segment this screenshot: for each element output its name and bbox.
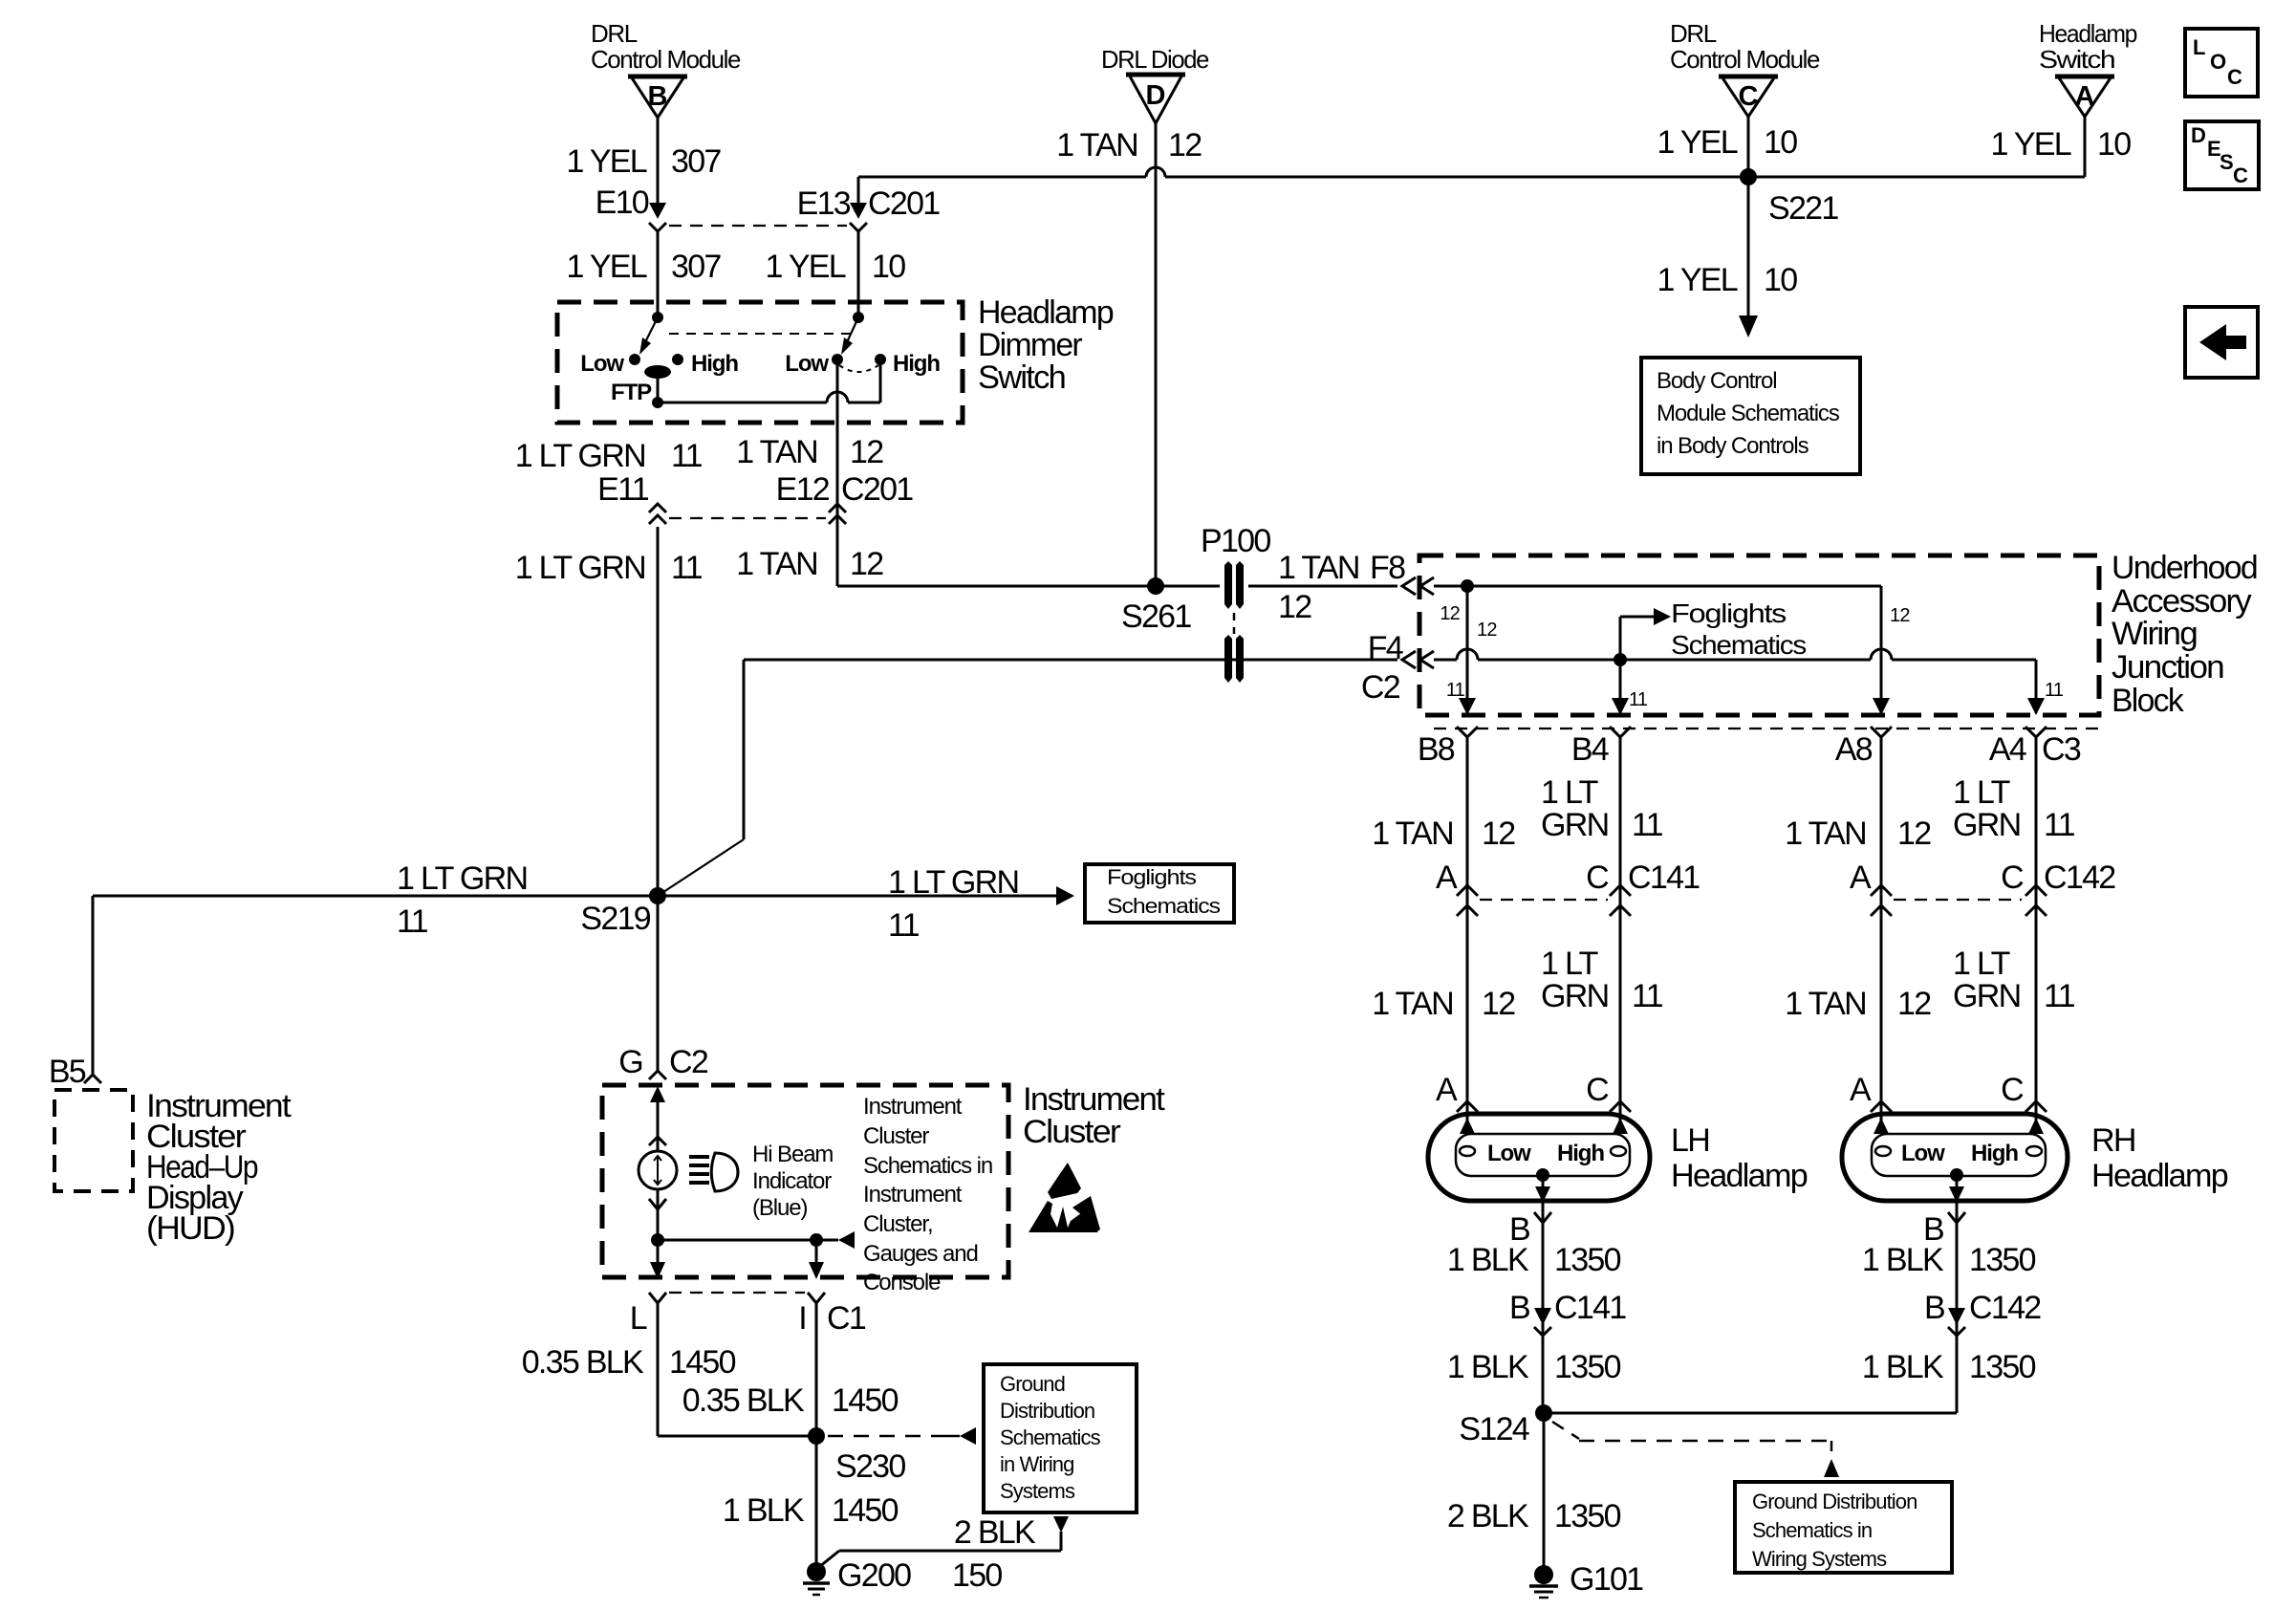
Hi Beam Indicator (Blue) text	[752, 1142, 833, 1221]
svg-text:C142: C142	[1969, 1290, 2041, 1326]
GRN wire inside junction block with hops	[1434, 649, 2036, 660]
C141 chevrons A column	[1457, 885, 1478, 916]
cluster entry arrow up	[650, 1086, 665, 1151]
svg-text:B: B	[1509, 1290, 1529, 1326]
svg-text:12: 12	[850, 546, 883, 582]
label 0.35 BLK 1450 right	[682, 1382, 899, 1419]
Instrument Cluster dashed box	[602, 1085, 1008, 1277]
svg-text:1350: 1350	[1554, 1242, 1621, 1278]
wire B into dimmer switch	[657, 229, 660, 319]
LH common dot	[1536, 1168, 1549, 1182]
label 1 LT GRN 11 left of S219	[397, 860, 527, 940]
svg-text:11: 11	[671, 550, 703, 586]
wire from C to S221	[1747, 117, 1750, 177]
LH Headlamp title	[1671, 1122, 1808, 1194]
ESD warning symbol	[1029, 1163, 1100, 1232]
label 1 BLK 1350 RH upper	[1862, 1242, 2036, 1278]
wire from A to bus	[2084, 117, 2087, 177]
svg-text:Low: Low	[1487, 1141, 1531, 1166]
cluster internal wire	[658, 1239, 838, 1242]
svg-text:G: G	[618, 1044, 642, 1080]
RH B chevron below lamp	[1948, 1212, 1965, 1223]
junction dot B8	[1461, 579, 1474, 593]
svg-text:Instrument: Instrument	[863, 1094, 963, 1120]
svg-text:1450: 1450	[832, 1382, 899, 1419]
Headlamp Switch title	[2039, 19, 2137, 74]
svg-text:D: D	[2191, 123, 2205, 147]
headlamp terminal chevrons RH	[1871, 1101, 2047, 1112]
arrow into left ground dist box	[960, 1427, 976, 1445]
back arrow box	[2185, 307, 2258, 378]
S124 dashed reference line	[1552, 1422, 1831, 1451]
label 1 TAN 12 below dimmer	[736, 434, 883, 470]
C141 chevrons C column	[1610, 885, 1631, 916]
diagonal wire S219 to GRN feed	[658, 839, 744, 896]
svg-text:1 TAN: 1 TAN	[1372, 986, 1453, 1022]
hi beam icon bars	[689, 1157, 709, 1183]
dashed connector line E11-E12	[669, 517, 826, 519]
svg-text:1 BLK: 1 BLK	[723, 1492, 805, 1529]
LOC box	[2185, 29, 2258, 97]
svg-text:Low: Low	[580, 351, 624, 377]
svg-text:1 TAN: 1 TAN	[1785, 986, 1866, 1022]
connector F8 chevrons	[1402, 577, 1434, 595]
label 1 TAN 12 below E12	[736, 546, 883, 582]
svg-text:Schematics in: Schematics in	[863, 1153, 992, 1179]
svg-text:1 LT GRN: 1 LT GRN	[397, 860, 527, 897]
Underhood junction block title	[2112, 550, 2257, 719]
svg-text:S124: S124	[1459, 1411, 1528, 1447]
RH ground wire	[1544, 1201, 1957, 1413]
label 1 BLK 1350 RH lower	[1862, 1349, 2036, 1385]
svg-text:C2: C2	[1361, 669, 1400, 706]
connector G C2 labels	[618, 1044, 708, 1080]
svg-text:GRN: GRN	[1541, 807, 1608, 843]
svg-text:Control Module: Control Module	[591, 45, 741, 74]
LH low filament hook	[1460, 1146, 1475, 1156]
wire right Low down and to S261	[837, 359, 1397, 586]
svg-text:2 BLK: 2 BLK	[954, 1514, 1036, 1551]
label 1 TAN 12 RH lower	[1785, 986, 1931, 1022]
RH high filament hook	[2026, 1146, 2042, 1156]
right switch arm	[841, 317, 858, 355]
svg-text:1 BLK: 1 BLK	[1447, 1242, 1529, 1278]
left arrow from schematics	[838, 1231, 855, 1249]
svg-text:Headlamp: Headlamp	[2091, 1158, 2228, 1194]
svg-text:DRL: DRL	[591, 19, 638, 48]
FTP wiper blob	[644, 365, 671, 379]
wire B from triangle to E10	[657, 118, 660, 205]
Foglights Schematics box (lower)	[1085, 864, 1234, 923]
svg-text:C201: C201	[868, 185, 940, 222]
label 1 TAN 12 LH lower	[1372, 986, 1515, 1022]
svg-text:Console: Console	[863, 1270, 941, 1295]
label 1 YEL 307 (upper)	[566, 143, 721, 180]
svg-text:Foglights: Foglights	[1671, 598, 1786, 628]
G101 ground symbol	[1529, 1565, 1558, 1598]
label 2 BLK 1350	[1447, 1498, 1621, 1534]
right switch pivot	[853, 312, 864, 323]
svg-text:1350: 1350	[1969, 1242, 2036, 1278]
G200 ground symbol	[803, 1562, 830, 1595]
mechanical link dashed line	[669, 333, 851, 335]
connector E11 chevrons	[649, 504, 666, 524]
arrow into BCM box	[1739, 315, 1758, 337]
svg-text:A4: A4	[1989, 731, 2026, 768]
svg-text:High: High	[1557, 1141, 1604, 1166]
Headlamp Dimmer Switch title	[978, 294, 1114, 396]
wire I down to G200	[815, 1303, 818, 1566]
svg-text:1350: 1350	[1554, 1349, 1621, 1385]
label 1 LT GRN 11 below dimmer	[515, 438, 703, 474]
S219 left horizontal wire 1 LT GRN	[93, 895, 1056, 898]
A4 drop wire	[2035, 660, 2038, 713]
svg-text:DRL: DRL	[1670, 19, 1717, 48]
svg-text:Instrument: Instrument	[1023, 1081, 1165, 1118]
svg-text:S230: S230	[835, 1448, 905, 1485]
label 1 TAN 12 RH upper	[1785, 816, 1931, 852]
headlamp terminal labels RH	[1850, 1072, 2024, 1108]
svg-text:1 LT: 1 LT	[1953, 774, 2010, 811]
svg-text:GRN: GRN	[1953, 978, 2020, 1014]
svg-text:11: 11	[1632, 978, 1663, 1014]
svg-text:Junction: Junction	[2112, 649, 2223, 685]
svg-text:1 YEL: 1 YEL	[566, 143, 646, 180]
svg-text:P100: P100	[1201, 523, 1270, 559]
svg-text:GRN: GRN	[1541, 978, 1608, 1014]
2 BLK ground wire	[819, 1532, 1061, 1567]
svg-text:150: 150	[952, 1557, 1002, 1594]
wire FTP to junction	[657, 372, 660, 402]
svg-text:12: 12	[1482, 986, 1515, 1022]
svg-text:RH: RH	[2091, 1122, 2135, 1159]
svg-text:Headlamp: Headlamp	[1671, 1158, 1808, 1194]
C142 chevrons A column	[1871, 885, 1892, 916]
svg-text:E13: E13	[797, 185, 851, 222]
svg-text:12: 12	[1168, 127, 1202, 163]
connector C142 B labels	[1924, 1290, 2041, 1326]
svg-text:L: L	[630, 1300, 647, 1337]
svg-text:11: 11	[1446, 680, 1465, 701]
svg-text:E: E	[2207, 137, 2220, 161]
connector B5 chevron	[84, 1075, 101, 1083]
label 1 LT GRN 11 RH lower	[1953, 946, 2075, 1014]
C141 dashed line	[1480, 899, 1608, 901]
svg-text:Block: Block	[2112, 683, 2185, 719]
svg-text:C: C	[1586, 859, 1609, 896]
connector C1 dashed line	[669, 1292, 805, 1294]
arrow down from left ground dist box	[1053, 1516, 1069, 1533]
label 1 YEL 10 below S221	[1657, 262, 1797, 298]
splice S124 dot	[1535, 1404, 1552, 1422]
right High contact	[875, 351, 940, 377]
svg-text:A: A	[1436, 1072, 1458, 1108]
svg-text:G200: G200	[837, 1557, 911, 1594]
junction dot in dimmer	[652, 397, 663, 408]
svg-text:10: 10	[872, 249, 905, 285]
wire from diode D down to S261	[1155, 123, 1158, 586]
svg-text:307: 307	[671, 249, 721, 285]
label 1 YEL 10 below E13	[765, 249, 905, 285]
arrow into foglights box	[1056, 886, 1074, 905]
arrow up to ground dist box	[1824, 1459, 1839, 1477]
left switch pivot	[652, 312, 663, 323]
RH headlamp outer body	[1842, 1114, 2068, 1201]
svg-text:1 BLK: 1 BLK	[1862, 1242, 1944, 1278]
svg-text:1450: 1450	[669, 1344, 736, 1381]
C141 B arrow and chevron	[1534, 1308, 1551, 1336]
svg-text:11: 11	[888, 907, 920, 944]
svg-text:B: B	[648, 81, 668, 112]
label 1 TAN F8	[1278, 550, 1405, 586]
connector G chevron	[649, 1071, 666, 1079]
svg-text:11: 11	[2044, 978, 2075, 1014]
splice S219 dot	[649, 887, 666, 904]
wire hop over DRL diode wire	[1146, 167, 1165, 177]
dashed throw arc right switch	[839, 365, 878, 372]
S230 dashed reference	[828, 1435, 960, 1438]
label 1 BLK 1450	[723, 1492, 899, 1529]
svg-text:B: B	[1924, 1290, 1944, 1326]
svg-text:11: 11	[2045, 680, 2064, 701]
svg-text:Indicator: Indicator	[752, 1168, 832, 1194]
TAN wire inside junction block	[1434, 585, 1881, 588]
svg-text:FTP: FTP	[611, 380, 652, 405]
svg-text:B5: B5	[49, 1054, 86, 1090]
svg-text:Cluster,: Cluster,	[863, 1211, 933, 1237]
svg-text:Cluster: Cluster	[863, 1123, 929, 1149]
svg-text:12: 12	[1482, 816, 1515, 852]
svg-text:10: 10	[2097, 126, 2131, 163]
svg-text:1 YEL: 1 YEL	[1990, 126, 2070, 163]
svg-text:1 YEL: 1 YEL	[765, 249, 845, 285]
svg-text:10: 10	[1764, 124, 1797, 161]
svg-text:1 BLK: 1 BLK	[1447, 1349, 1529, 1385]
svg-text:LH: LH	[1671, 1122, 1709, 1159]
connector triangle B	[628, 76, 687, 118]
B8 drop wire	[1466, 586, 1469, 713]
svg-text:Control Module: Control Module	[1670, 45, 1820, 74]
top horizontal bus wire 1 YEL 10	[858, 176, 2085, 179]
svg-text:A: A	[2075, 81, 2095, 112]
Instrument Cluster title	[1023, 1081, 1165, 1150]
LH B chevron below lamp	[1534, 1212, 1551, 1223]
splice S221 dot	[1740, 168, 1757, 185]
svg-text:1 YEL: 1 YEL	[1657, 262, 1737, 298]
label 1 BLK 1350 LH upper	[1447, 1242, 1621, 1278]
svg-text:Headlamp: Headlamp	[978, 294, 1114, 331]
svg-text:C141: C141	[1628, 859, 1700, 896]
svg-text:A: A	[1850, 1072, 1872, 1108]
Foglights Schematics text in block	[1671, 598, 1806, 660]
Ground Distribution box right	[1735, 1482, 1952, 1573]
RH low terminal arrow	[1874, 1118, 1889, 1134]
svg-text:G101: G101	[1570, 1561, 1643, 1598]
P100 grommet upper	[1220, 561, 1248, 611]
C142 B arrow and chevron	[1948, 1308, 1965, 1336]
svg-text:Low: Low	[785, 351, 829, 377]
svg-text:S261: S261	[1121, 598, 1191, 635]
internal wire to right High with hop	[658, 360, 880, 402]
svg-text:S219: S219	[580, 901, 650, 937]
svg-text:12: 12	[1440, 603, 1460, 624]
svg-text:F8: F8	[1370, 550, 1405, 586]
svg-text:307: 307	[671, 143, 721, 180]
cluster junction dot right	[810, 1233, 823, 1247]
wire B down to instrument cluster	[657, 527, 660, 1071]
I C1 labels	[798, 1300, 866, 1337]
svg-text:1 YEL: 1 YEL	[1657, 124, 1737, 161]
connector E13 chevron	[850, 223, 867, 231]
RH low filament hook	[1875, 1146, 1891, 1156]
Headlamp Dimmer Switch dashed box	[557, 302, 963, 423]
connector triangle C	[1719, 76, 1778, 117]
Instrument Cluster HUD dashed box	[54, 1090, 133, 1191]
cluster junction dot left	[651, 1233, 664, 1247]
svg-text:C141: C141	[1554, 1290, 1626, 1326]
Body Control Module schematics box	[1641, 358, 1860, 474]
RH Headlamp title	[2091, 1122, 2228, 1194]
svg-text:Cluster: Cluster	[1023, 1114, 1120, 1150]
label 1 TAN 12 LH upper	[1372, 816, 1515, 852]
svg-text:11: 11	[397, 903, 428, 940]
A8 drop wire	[1880, 586, 1883, 713]
svg-text:12: 12	[1278, 589, 1311, 625]
wire E13 into dimmer switch	[857, 229, 860, 319]
left High contact	[672, 351, 738, 377]
svg-text:A: A	[1436, 859, 1458, 896]
connector I chevron	[808, 1293, 825, 1303]
svg-text:Schematics: Schematics	[1107, 894, 1221, 918]
svg-text:12: 12	[1477, 620, 1497, 641]
connector L chevron	[649, 1293, 666, 1303]
svg-text:Wiring Systems: Wiring Systems	[1752, 1547, 1887, 1571]
svg-text:1 LT: 1 LT	[1541, 774, 1598, 811]
svg-text:Schematics: Schematics	[1000, 1425, 1101, 1449]
svg-text:S221: S221	[1768, 190, 1838, 227]
svg-text:10: 10	[1764, 262, 1797, 298]
LH low terminal arrow	[1460, 1118, 1475, 1134]
svg-text:12: 12	[1897, 986, 1931, 1022]
LH headlamp inner loop	[1456, 1134, 1630, 1176]
svg-text:High: High	[893, 351, 940, 377]
splice S230 dot	[808, 1427, 825, 1445]
C142 chevrons C column	[2025, 885, 2047, 916]
connector E10 chevron	[649, 223, 666, 231]
label 1 YEL 10 at C	[1657, 124, 1797, 161]
label 0.35 BLK 1450 left	[522, 1344, 736, 1381]
svg-text:in Body Controls: in Body Controls	[1657, 433, 1809, 459]
svg-text:GRN: GRN	[1953, 807, 2020, 843]
svg-text:Schematics: Schematics	[1671, 630, 1806, 660]
RH headlamp inner loop	[1872, 1134, 2046, 1176]
svg-text:0.35 BLK: 0.35 BLK	[682, 1382, 805, 1419]
svg-text:1 YEL: 1 YEL	[566, 249, 646, 285]
DRL Control Module C title	[1670, 19, 1820, 74]
label 1 BLK 1350 LH lower	[1447, 1349, 1621, 1385]
C142 dashed line	[1894, 899, 2022, 901]
LH high filament hook	[1611, 1146, 1626, 1156]
RH common dot	[1950, 1168, 1963, 1182]
connector triangle A	[2055, 76, 2114, 117]
RH Low High labels	[1901, 1141, 2018, 1166]
svg-text:C: C	[1586, 1072, 1609, 1108]
svg-text:1 LT: 1 LT	[1953, 946, 2010, 982]
wire L down to S230	[658, 1303, 816, 1436]
connector E12 chevrons	[829, 504, 846, 524]
B4 drop wire	[1619, 660, 1622, 713]
svg-text:1350: 1350	[1554, 1498, 1621, 1534]
svg-text:1 TAN: 1 TAN	[736, 546, 817, 582]
label 1 YEL 307 (lower)	[566, 249, 721, 285]
connector triangle D	[1126, 75, 1185, 123]
LH high terminal arrow	[1613, 1118, 1628, 1134]
svg-text:C201: C201	[841, 471, 913, 508]
svg-text:1450: 1450	[832, 1492, 899, 1529]
vertical riser of GRN feed	[743, 660, 746, 839]
svg-text:1 LT GRN: 1 LT GRN	[888, 864, 1018, 901]
svg-text:12: 12	[1890, 605, 1910, 626]
svg-text:DRL Diode: DRL Diode	[1101, 45, 1209, 74]
svg-text:Body Control: Body Control	[1657, 368, 1777, 394]
svg-text:Module Schematics: Module Schematics	[1657, 401, 1840, 426]
dashed connector line E10-E13	[669, 225, 847, 227]
cluster wire bulb to dot	[657, 1189, 660, 1240]
P100 dashed link	[1233, 613, 1236, 634]
svg-text:(Blue): (Blue)	[752, 1195, 808, 1221]
svg-text:S: S	[2220, 150, 2233, 174]
cluster internal chevron	[649, 1137, 666, 1145]
svg-text:C: C	[2001, 1072, 2024, 1108]
svg-text:D: D	[1146, 80, 1166, 111]
svg-text:C: C	[2233, 163, 2248, 187]
svg-text:B4: B4	[1571, 731, 1609, 768]
svg-text:0.35 BLK: 0.35 BLK	[522, 1344, 644, 1381]
Ground Distribution box left	[984, 1364, 1137, 1512]
svg-text:C142: C142	[2044, 859, 2115, 896]
svg-text:O: O	[2210, 50, 2226, 74]
svg-text:C2: C2	[669, 1044, 708, 1080]
RH B arrow down	[1949, 1175, 1964, 1203]
svg-text:E10: E10	[596, 185, 649, 221]
chevron below bulb	[649, 1199, 666, 1209]
wire E13 corner from top bus	[857, 177, 860, 205]
svg-text:Ground: Ground	[1000, 1372, 1065, 1396]
DRL Control Module B title	[591, 19, 741, 74]
svg-text:Distribution: Distribution	[1000, 1399, 1094, 1423]
svg-text:C: C	[2001, 859, 2024, 896]
svg-text:Switch: Switch	[978, 359, 1065, 396]
svg-text:Instrument: Instrument	[863, 1182, 963, 1207]
svg-text:11: 11	[1629, 689, 1648, 710]
connector F4 chevrons	[1402, 651, 1434, 668]
svg-text:L: L	[2193, 35, 2205, 59]
svg-text:C1: C1	[827, 1300, 866, 1337]
svg-text:1 BLK: 1 BLK	[1862, 1349, 1944, 1385]
svg-text:I: I	[798, 1300, 806, 1337]
LH ground wire upper	[1542, 1201, 1545, 1413]
headlamp terminal labels LH	[1436, 1072, 1609, 1108]
svg-text:1 TAN: 1 TAN	[736, 434, 817, 470]
svg-text:1 TAN: 1 TAN	[1056, 127, 1137, 163]
svg-text:11: 11	[671, 438, 703, 474]
left switch arm	[639, 317, 658, 355]
svg-text:E12: E12	[776, 471, 830, 508]
hi beam icon lens	[711, 1153, 738, 1191]
RH high terminal arrow	[2028, 1118, 2044, 1134]
svg-text:A: A	[1850, 859, 1872, 896]
C3 connector chevrons	[1457, 727, 2047, 737]
